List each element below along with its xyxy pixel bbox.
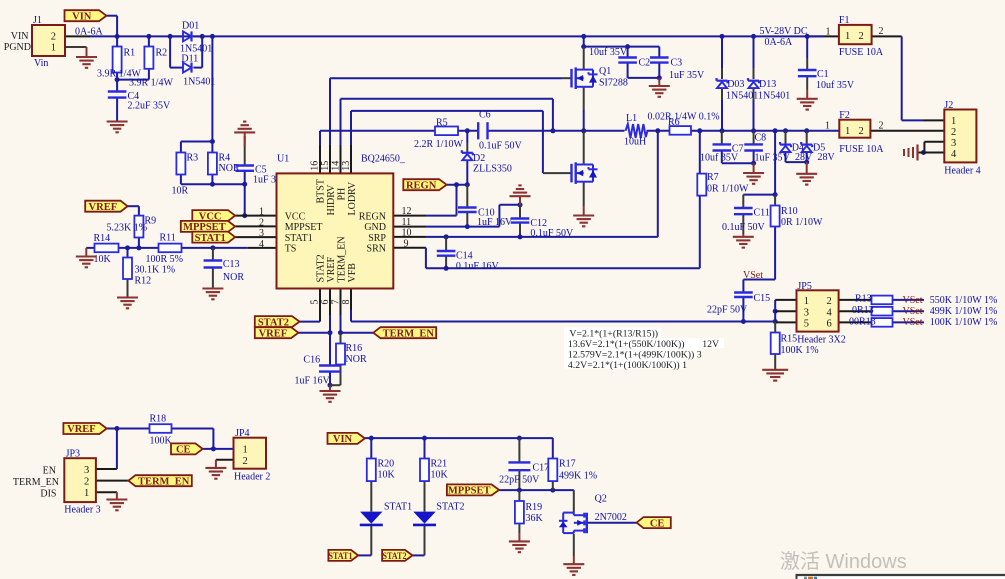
svg-text:1: 1 — [826, 27, 831, 38]
svg-text:2: 2 — [827, 296, 832, 307]
wire JP5 right rows — [839, 300, 924, 323]
net flag VIN bottom — [328, 433, 365, 445]
transistor Q2 2N7002 — [559, 494, 627, 534]
svg-text:TERM_EN: TERM_EN — [138, 476, 190, 487]
svg-text:TERM_EN: TERM_EN — [13, 477, 59, 488]
svg-text:Header 2: Header 2 — [234, 472, 270, 483]
label 0A-6A — [75, 27, 104, 38]
svg-text:9: 9 — [404, 238, 409, 249]
svg-text:SRN: SRN — [367, 244, 386, 255]
svg-text:1uF 35V: 1uF 35V — [755, 153, 791, 164]
wire STAT1 pin 3 — [235, 236, 276, 238]
wire D13 vertical — [753, 36, 755, 130]
net flag REGN — [403, 179, 446, 191]
wire VIN row bottom — [365, 436, 553, 459]
svg-text:6: 6 — [827, 319, 832, 330]
svg-text:0A-6A: 0A-6A — [75, 27, 104, 38]
power ground inverted above C12 — [510, 185, 531, 204]
net flag VREF bottom — [63, 423, 106, 435]
svg-text:0.1uF 50V: 0.1uF 50V — [479, 141, 523, 152]
svg-text:STAT2: STAT2 — [316, 254, 327, 282]
svg-text:Header 3X2: Header 3X2 — [797, 335, 846, 346]
svg-text:FUSE 10A: FUSE 10A — [839, 144, 884, 155]
svg-text:F1: F1 — [839, 15, 850, 26]
svg-text:3: 3 — [951, 138, 956, 149]
svg-text:36K: 36K — [526, 513, 544, 524]
svg-text:C16: C16 — [303, 355, 320, 366]
svg-text:R16: R16 — [346, 343, 363, 354]
wire R12 to ground — [127, 279, 129, 298]
capacitor C14 — [437, 251, 500, 273]
svg-text:3.9R 1/4W: 3.9R 1/4W — [129, 78, 173, 89]
op-amp U1 BQ24650 body — [277, 154, 406, 289]
resistor R6 — [648, 112, 720, 135]
svg-text:Q2: Q2 — [595, 494, 607, 505]
svg-text:1N5401: 1N5401 — [758, 91, 790, 102]
svg-text:VSet: VSet — [743, 270, 763, 281]
svg-text:1N5401: 1N5401 — [726, 91, 758, 102]
wire VREF R18 row — [107, 426, 214, 449]
wire D03 vertical — [721, 36, 723, 130]
svg-text:TS: TS — [285, 244, 297, 255]
svg-text:2: 2 — [51, 32, 56, 43]
ground Q2 — [563, 564, 584, 575]
ground J1 — [76, 57, 97, 68]
svg-text:R21: R21 — [431, 459, 448, 470]
wire low FET source to ground — [583, 182, 585, 216]
svg-text:CE: CE — [650, 518, 665, 529]
svg-text:U1: U1 — [277, 154, 289, 165]
svg-text:0.1uF 50V: 0.1uF 50V — [530, 228, 574, 239]
wire C17 branch — [518, 438, 520, 490]
svg-text:JP3: JP3 — [66, 449, 80, 460]
svg-text:L1: L1 — [626, 113, 637, 124]
diode D2 ZLLS350 — [462, 150, 512, 174]
wire R21 to LED STAT2 — [413, 438, 425, 555]
net flag MPPSET bottom — [447, 484, 499, 496]
wire BTST pin 16 to R5 — [320, 131, 435, 174]
svg-text:R2: R2 — [156, 48, 168, 59]
wire PH pin 14 to switch node — [341, 99, 556, 174]
capacitor C8 — [744, 133, 790, 164]
svg-text:NOR: NOR — [223, 272, 244, 283]
transistor low-side MOSFET — [572, 162, 598, 184]
resistor R11 — [146, 233, 184, 266]
svg-text:3: 3 — [804, 307, 809, 318]
svg-text:VSet: VSet — [903, 317, 923, 328]
resistor R19 — [515, 501, 544, 524]
svg-text:2: 2 — [259, 217, 264, 228]
resistor R21 — [420, 459, 449, 482]
svg-text:1uF 16V: 1uF 16V — [477, 217, 513, 228]
diode D13 — [748, 78, 790, 101]
wire R15 to ground — [774, 322, 776, 370]
wire VREF to R9 — [128, 206, 139, 215]
resistor R9 — [107, 216, 157, 238]
capacitor C16 — [295, 355, 341, 387]
net flag STAT1 — [192, 232, 235, 244]
wire JP3 pin3 to VREF — [96, 429, 117, 470]
wire Q1 source — [583, 87, 585, 131]
svg-text:R15: R15 — [781, 334, 798, 345]
resistor R17 — [548, 459, 597, 482]
resistor 0R13 — [852, 305, 997, 317]
svg-text:28V: 28V — [795, 152, 813, 163]
net flag STAT1 bottom — [328, 550, 358, 562]
wire J2 pin4 chassis — [918, 152, 945, 154]
net flag TERM_EN at JP3 — [128, 475, 191, 487]
diode D11 — [181, 54, 215, 88]
svg-text:1: 1 — [804, 296, 809, 307]
svg-text:CE: CE — [176, 445, 191, 456]
svg-text:10R: 10R — [172, 186, 189, 197]
svg-text:2: 2 — [859, 31, 864, 42]
svg-text:C8: C8 — [755, 133, 767, 144]
ground R14 — [76, 257, 97, 268]
ground C4 — [107, 122, 128, 133]
ground C1 — [797, 99, 818, 110]
capacitor C4 — [108, 91, 171, 112]
svg-text:5: 5 — [310, 300, 321, 305]
connector JP3 — [13, 449, 101, 516]
label 5V-28V DC — [760, 26, 808, 48]
wire SRN pin 9 row — [394, 248, 700, 271]
connector J1 — [4, 15, 65, 69]
wire VSet node to C15 — [743, 280, 775, 322]
svg-text:MPPSET: MPPSET — [448, 486, 491, 497]
resistor R16 — [336, 343, 367, 365]
net flag VCC — [192, 210, 235, 222]
capacitor C3 — [650, 58, 705, 82]
capacitor C10 — [458, 208, 513, 228]
wire JP5 tie line — [773, 300, 797, 323]
resistor R14 — [94, 233, 119, 265]
capacitor C12 — [511, 218, 574, 239]
ground C2 C3 — [649, 86, 670, 97]
power ground inverted above C5 — [234, 122, 255, 146]
svg-text:TERM_EN: TERM_EN — [383, 328, 435, 339]
wire GND pin 11 row — [394, 200, 523, 229]
ground D4 D5 — [796, 174, 817, 185]
resistor R3 — [172, 153, 199, 197]
diode D4 28V — [780, 142, 813, 163]
svg-text:VIN: VIN — [11, 31, 29, 42]
svg-text:Header 3: Header 3 — [64, 505, 100, 516]
svg-text:4: 4 — [951, 149, 957, 160]
svg-text:100K 1%: 100K 1% — [781, 345, 819, 356]
svg-text:1: 1 — [84, 488, 89, 499]
svg-text:1uF 35V: 1uF 35V — [669, 70, 705, 81]
wire R20 to LED STAT1 — [358, 438, 371, 555]
svg-text:10uf 35V: 10uf 35V — [816, 80, 855, 91]
svg-text:D11: D11 — [181, 54, 198, 65]
svg-text:22pF 50V: 22pF 50V — [499, 475, 540, 486]
svg-text:D13: D13 — [759, 79, 776, 90]
wire R1 R2 C4 node — [115, 36, 149, 121]
capacitor C1 — [798, 69, 855, 91]
wire Q1 drain — [581, 36, 586, 69]
ground JP4 — [205, 468, 226, 479]
ground low-side FET — [573, 216, 594, 227]
svg-text:00R13: 00R13 — [849, 317, 876, 328]
wire C11 branch — [743, 195, 775, 237]
net flag STAT2 under U1 — [255, 316, 300, 328]
net flag MPPSET — [181, 221, 235, 233]
svg-text:C6: C6 — [479, 110, 491, 121]
svg-text:16: 16 — [310, 161, 321, 171]
svg-text:VREF: VREF — [326, 257, 337, 283]
ground C7 C8 — [743, 173, 764, 184]
wire JP4 pin2 ground — [216, 460, 234, 468]
svg-text:C3: C3 — [671, 58, 683, 69]
wire J1 pin1 to ground — [65, 47, 87, 57]
net flag STAT2 bottom — [382, 550, 412, 562]
svg-text:C17: C17 — [533, 463, 550, 474]
ground C13 — [202, 289, 223, 300]
wire VIN input bus — [65, 34, 839, 39]
svg-text:STAT1: STAT1 — [384, 502, 412, 513]
svg-text:JP4: JP4 — [235, 428, 249, 439]
wire Q2 gate to CE — [587, 522, 637, 524]
resistor 00R13 — [849, 317, 997, 329]
svg-text:0A-6A: 0A-6A — [765, 37, 794, 48]
svg-text:C2: C2 — [639, 58, 651, 69]
ground C11 — [733, 237, 754, 248]
svg-text:C14: C14 — [456, 251, 473, 262]
svg-text:STAT2: STAT2 — [436, 502, 464, 513]
wire C5 to VCC node — [242, 136, 247, 218]
svg-text:4: 4 — [827, 307, 833, 318]
svg-text:R19: R19 — [526, 502, 543, 513]
connector JP4 — [234, 428, 271, 483]
svg-text:VREF: VREF — [67, 424, 96, 435]
wire TERM_EN pin 7 and R16 — [330, 289, 373, 386]
svg-text:BTST: BTST — [316, 179, 327, 203]
diode D03 — [717, 78, 759, 101]
svg-text:C1: C1 — [817, 69, 829, 80]
svg-text:HIDRV: HIDRV — [326, 184, 337, 216]
chassis ground at J2 — [904, 145, 918, 161]
svg-text:3: 3 — [259, 228, 264, 239]
wire STAT2 pin 5 — [300, 289, 320, 322]
svg-text:13: 13 — [341, 161, 352, 171]
wire low FET drain — [583, 131, 585, 165]
svg-text:28V: 28V — [818, 152, 836, 163]
wire JP3 pin1 ground — [96, 492, 117, 499]
capacitor C2 — [589, 47, 650, 69]
svg-text:PGND: PGND — [4, 42, 31, 53]
svg-text:DIS: DIS — [40, 488, 56, 499]
svg-text:499K 1/10W 1%: 499K 1/10W 1% — [930, 306, 998, 317]
svg-text:2: 2 — [243, 456, 248, 467]
wire MPPSET pin 2 — [235, 225, 276, 227]
svg-text:R1: R1 — [124, 48, 136, 59]
svg-text:R13: R13 — [855, 294, 872, 305]
popup window edge bottom right — [796, 574, 1005, 579]
resistor R5 — [414, 118, 463, 151]
svg-text:VFB: VFB — [347, 263, 358, 283]
svg-text:NOR: NOR — [346, 354, 367, 365]
wire Q2 source to ground — [573, 534, 575, 564]
svg-text:550K 1/10W 1%: 550K 1/10W 1% — [930, 295, 998, 306]
diode D01 — [180, 21, 212, 55]
svg-text:1: 1 — [51, 43, 56, 54]
ground R19 — [509, 541, 530, 552]
svg-text:15: 15 — [320, 161, 331, 171]
wire LODRV pin 13 to low FET gate — [351, 111, 572, 173]
svg-text:5V-28V DC: 5V-28V DC — [760, 26, 808, 37]
svg-text:F2: F2 — [839, 110, 850, 121]
wire R19 to ground — [518, 490, 520, 541]
svg-text:2: 2 — [859, 126, 864, 137]
svg-text:D01: D01 — [182, 21, 199, 32]
wire VREF pin 6 and C16 — [298, 289, 332, 392]
svg-text:100K 1/10W 1%: 100K 1/10W 1% — [930, 317, 998, 328]
formula annotation block — [564, 328, 724, 372]
svg-text:激活 Windows: 激活 Windows — [780, 550, 907, 573]
svg-text:12: 12 — [402, 206, 412, 217]
svg-text:10uH: 10uH — [624, 137, 646, 148]
svg-text:11: 11 — [402, 217, 412, 228]
svg-text:R3: R3 — [187, 153, 199, 164]
connector JP5 — [797, 281, 846, 346]
svg-text:C13: C13 — [223, 259, 240, 270]
svg-text:1: 1 — [259, 207, 264, 218]
svg-text:2: 2 — [951, 127, 956, 138]
svg-text:R7: R7 — [707, 172, 719, 183]
svg-text:0R13: 0R13 — [852, 305, 874, 316]
wire C2 C3 branch — [584, 44, 662, 86]
wire TS pin 4 network — [86, 238, 276, 261]
wire F2 output to J2 pin2 — [870, 130, 944, 132]
wire D01 D11 loop — [170, 36, 202, 67]
svg-text:22pF 50V: 22pF 50V — [707, 305, 748, 316]
svg-text:C15: C15 — [754, 293, 771, 304]
svg-text:C11: C11 — [754, 208, 770, 219]
svg-text:13.6V=2.1*(1+(550K/100K)): 13.6V=2.1*(1+(550K/100K)) — [568, 339, 685, 350]
resistor R15 — [771, 333, 819, 357]
LED STAT2 — [413, 502, 464, 525]
svg-text:2N7002: 2N7002 — [595, 512, 627, 523]
svg-text:VIN: VIN — [333, 434, 353, 445]
svg-text:J2: J2 — [944, 100, 953, 111]
wire R10 branch — [773, 131, 778, 280]
ground R15 — [762, 370, 788, 381]
wire D2 C10 branch — [466, 131, 468, 227]
svg-text:2: 2 — [879, 26, 884, 37]
capacitor C15 — [707, 293, 770, 316]
svg-text:VSet: VSet — [903, 295, 923, 306]
wire C1 branch — [806, 36, 808, 98]
svg-text:0R 1/10W: 0R 1/10W — [707, 184, 749, 195]
svg-text:VSet: VSet — [903, 306, 923, 317]
svg-text:6: 6 — [320, 300, 331, 305]
wire HIDRV pin 15 to Q1 gate — [330, 78, 572, 173]
svg-text:R14: R14 — [94, 233, 111, 244]
svg-text:BQ24650_: BQ24650_ — [361, 154, 406, 165]
capacitor C7 — [700, 144, 744, 164]
svg-text:2: 2 — [84, 476, 89, 487]
svg-text:Q1: Q1 — [599, 66, 611, 77]
net flag CE at Q2 — [637, 517, 671, 529]
svg-text:2: 2 — [879, 121, 884, 132]
wire VIN flag drop — [106, 16, 117, 37]
capacitor C17 — [499, 462, 549, 485]
capacitor C13 — [204, 259, 245, 283]
svg-text:MPPSET: MPPSET — [285, 222, 323, 233]
svg-text:1: 1 — [825, 121, 830, 132]
svg-text:30.1K 1%: 30.1K 1% — [135, 265, 176, 276]
svg-text:100R 5%: 100R 5% — [146, 254, 184, 265]
svg-text:D2: D2 — [473, 153, 485, 164]
svg-text:10uf 35V: 10uf 35V — [700, 153, 739, 164]
wire F1 input — [807, 35, 824, 37]
svg-text:VREF: VREF — [259, 328, 288, 339]
resistor R13 — [855, 294, 997, 306]
fuse F1 — [826, 15, 884, 58]
svg-text:R5: R5 — [436, 118, 448, 129]
svg-text:JP5: JP5 — [797, 281, 811, 292]
svg-text:2.2uF 35V: 2.2uF 35V — [128, 101, 172, 112]
wire CE row to JP4 — [203, 446, 234, 451]
net flag VREF under U1 — [255, 327, 299, 339]
svg-text:Vin: Vin — [34, 58, 48, 69]
resistor R2 — [129, 47, 173, 89]
wire SRP pin 10 row — [394, 131, 658, 240]
svg-text:10uf 35V: 10uf 35V — [589, 47, 628, 58]
LED STAT1 — [360, 502, 412, 525]
svg-text:1: 1 — [845, 126, 850, 137]
svg-text:R20: R20 — [378, 459, 395, 470]
resistor R20 — [367, 459, 396, 482]
resistor R4 — [208, 153, 240, 175]
svg-text:J1: J1 — [33, 15, 42, 26]
svg-text:GND: GND — [364, 222, 386, 233]
svg-text:1: 1 — [951, 116, 956, 127]
svg-text:0.1uF 16V: 0.1uF 16V — [456, 261, 500, 272]
wire VFB bus — [351, 289, 778, 325]
svg-text:10: 10 — [402, 228, 412, 239]
svg-text:1: 1 — [243, 445, 248, 456]
svg-text:V=2.1*(1+(R13/R15)): V=2.1*(1+(R13/R15)) — [569, 329, 658, 340]
svg-text:8: 8 — [341, 300, 352, 305]
svg-text:3: 3 — [84, 465, 89, 476]
wire REGN node — [394, 182, 470, 215]
svg-text:1uF 16V: 1uF 16V — [295, 376, 331, 387]
wire rectified VIN to R3 R4 — [181, 36, 247, 186]
svg-text:STAT2: STAT2 — [383, 551, 407, 562]
svg-text:1: 1 — [845, 31, 850, 42]
resistor R1 — [97, 47, 141, 80]
svg-text:100K: 100K — [150, 436, 173, 447]
capacitor C6 — [478, 110, 522, 152]
wire J2 pin3 — [921, 142, 944, 155]
svg-text:R12: R12 — [135, 276, 152, 287]
svg-text:VREF: VREF — [89, 202, 118, 213]
capacitor C11 — [722, 208, 770, 234]
svg-text:ZLLS350: ZLLS350 — [473, 164, 512, 175]
svg-text:R10: R10 — [781, 206, 798, 217]
svg-text:4.2V=2.1*(1+(100K/100K)) 1: 4.2V=2.1*(1+(100K/100K)) 1 — [568, 360, 687, 371]
wire R17 bottom — [552, 481, 554, 490]
wire R6 sense to R7 — [699, 131, 701, 268]
svg-text:REGN: REGN — [406, 180, 437, 191]
svg-text:R17: R17 — [559, 459, 576, 470]
resistor R12 — [123, 258, 175, 287]
svg-text:2.2R 1/10W: 2.2R 1/10W — [414, 139, 463, 150]
svg-text:STAT1: STAT1 — [329, 551, 353, 562]
wire JP3 pin2 TERM_EN — [96, 480, 128, 482]
